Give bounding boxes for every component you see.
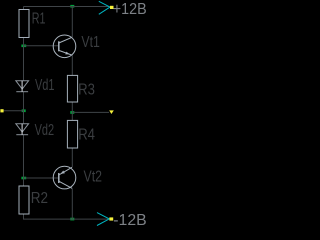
svg-text:R2: R2 — [31, 190, 48, 207]
svg-text:-12В: -12В — [113, 212, 146, 229]
svg-text:Vd2: Vd2 — [35, 121, 54, 139]
svg-text:R1: R1 — [32, 9, 46, 27]
svg-text:+12В: +12В — [113, 0, 147, 18]
svg-text:Vt2: Vt2 — [84, 168, 103, 186]
svg-text:Vd1: Vd1 — [35, 76, 54, 94]
svg-text:R4: R4 — [78, 126, 95, 143]
svg-text:Vt1: Vt1 — [81, 33, 100, 51]
svg-text:R3: R3 — [78, 81, 95, 98]
